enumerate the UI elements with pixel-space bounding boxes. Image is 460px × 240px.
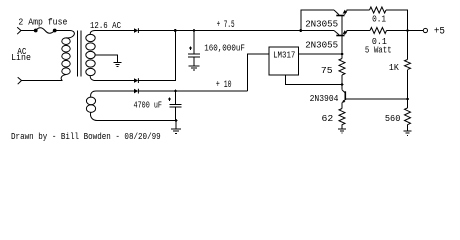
transistor Q1 2N3055 feed wire bbox=[301, 10, 334, 31]
ground (C2) bbox=[175, 121, 177, 129]
wire D2 to +7.5 rail bbox=[138, 31, 175, 81]
output terminal circle bbox=[423, 28, 427, 32]
fuse F1 bbox=[34, 28, 56, 34]
wire LM317 adj bbox=[286, 75, 343, 85]
wire R4 to divider node bbox=[407, 70, 409, 99]
svg-text:Line: Line bbox=[11, 53, 31, 63]
capacitor C2 4700uF bbox=[175, 91, 177, 104]
svg-text:75: 75 bbox=[321, 65, 333, 76]
svg-text:+ 10: + 10 bbox=[216, 80, 232, 91]
svg-text:2N3055: 2N3055 bbox=[305, 40, 338, 51]
resistor R6 560 bbox=[407, 99, 409, 108]
svg-text:0.1: 0.1 bbox=[372, 15, 386, 25]
wire R1 to output node bbox=[386, 10, 408, 31]
node LM317 out / R75 bbox=[341, 53, 344, 56]
wire R3 to adj node bbox=[341, 75, 343, 85]
plus sign C1 bbox=[189, 46, 192, 50]
op-amp U1 LM317 box bbox=[269, 47, 299, 75]
ground (R5) bbox=[341, 125, 343, 129]
node rail/D2 bbox=[174, 29, 177, 32]
node adj/Q3 collector bbox=[341, 83, 344, 86]
transistor Q2 2N3055 bbox=[334, 30, 347, 35]
ground (center tap) bbox=[114, 63, 122, 67]
svg-text:62: 62 bbox=[322, 113, 334, 124]
+10 rail wire bbox=[138, 90, 247, 92]
node rail/Q1 feed bbox=[300, 29, 303, 32]
node C2/winding bottom bbox=[175, 119, 178, 122]
wire Q3 base to divider node bbox=[346, 98, 408, 100]
wire lower winding bottom to C2 bbox=[97, 120, 176, 122]
ground (R6) bbox=[407, 125, 409, 131]
transformer core bbox=[78, 31, 82, 77]
node rail/output bbox=[406, 29, 409, 32]
resistor R2 0.1 5 Watt bbox=[370, 28, 387, 34]
resistor R4 1K bbox=[407, 31, 409, 60]
transformer T1 secondary winding bbox=[86, 31, 96, 81]
AC line top terminal bbox=[17, 27, 21, 34]
wire top AC to fuse bbox=[21, 30, 36, 32]
wire lower winding top to D3 bbox=[97, 90, 135, 92]
transformer T1 primary winding bbox=[61, 31, 74, 81]
wire fuse to transformer primary bbox=[55, 30, 70, 32]
base column Q1/Q2 bbox=[341, 16, 343, 59]
node +10/C2 bbox=[174, 90, 177, 93]
wire Q2 emitter to R2 bbox=[347, 30, 371, 32]
wire Q1 emitter to R1 bbox=[347, 9, 370, 11]
svg-text:2 Amp fuse: 2 Amp fuse bbox=[18, 18, 67, 28]
wire secondary bottom to D2 bbox=[96, 80, 135, 82]
diode D3 bbox=[134, 89, 138, 94]
center tap wire bbox=[95, 55, 118, 62]
svg-text:12.6 AC: 12.6 AC bbox=[90, 21, 121, 31]
node rail/C1 bbox=[193, 29, 196, 32]
svg-text:+5: +5 bbox=[434, 27, 445, 38]
svg-text:4700 uF: 4700 uF bbox=[134, 100, 163, 110]
svg-text:+ 7.5: + 7.5 bbox=[217, 20, 235, 31]
wire +10 rail to LM317 input bbox=[248, 54, 269, 91]
svg-text:160,000uF: 160,000uF bbox=[204, 43, 245, 54]
node divider bbox=[406, 98, 409, 101]
transistor Q1 2N3055 bbox=[334, 10, 347, 16]
resistor R1 0.1 bbox=[370, 7, 387, 13]
capacitor C1 160,000uF bbox=[193, 31, 195, 55]
wire Q3 emitter to R5 bbox=[341, 103, 343, 109]
diode D2 bbox=[134, 78, 138, 83]
transformer T1 lower winding bbox=[86, 91, 97, 121]
svg-text:2N3904: 2N3904 bbox=[310, 94, 339, 104]
+7.5 rail wire bbox=[138, 30, 334, 32]
svg-text:Drawn by - Bill Bowden - 08/20: Drawn by - Bill Bowden - 08/20/99 bbox=[11, 132, 161, 142]
svg-text:5 Watt: 5 Watt bbox=[365, 45, 392, 55]
wire LM317 output bbox=[299, 53, 342, 55]
resistor R5 62 bbox=[339, 109, 345, 125]
svg-text:2N3055: 2N3055 bbox=[305, 18, 338, 29]
svg-text:LM317: LM317 bbox=[273, 51, 295, 61]
wire bottom AC to primary bbox=[22, 80, 63, 82]
wire R2 to output terminal bbox=[387, 30, 424, 32]
svg-text:1K: 1K bbox=[389, 62, 399, 73]
diode D1 bbox=[134, 28, 138, 33]
AC line bottom terminal bbox=[18, 77, 22, 84]
svg-text:560: 560 bbox=[385, 113, 401, 124]
ground (C1) bbox=[189, 66, 200, 70]
transistor Q3 2N3904 bbox=[342, 85, 346, 104]
plus sign C2 bbox=[168, 98, 171, 102]
resistor R3 75 bbox=[339, 59, 345, 76]
wire secondary top to D1 bbox=[95, 30, 134, 32]
